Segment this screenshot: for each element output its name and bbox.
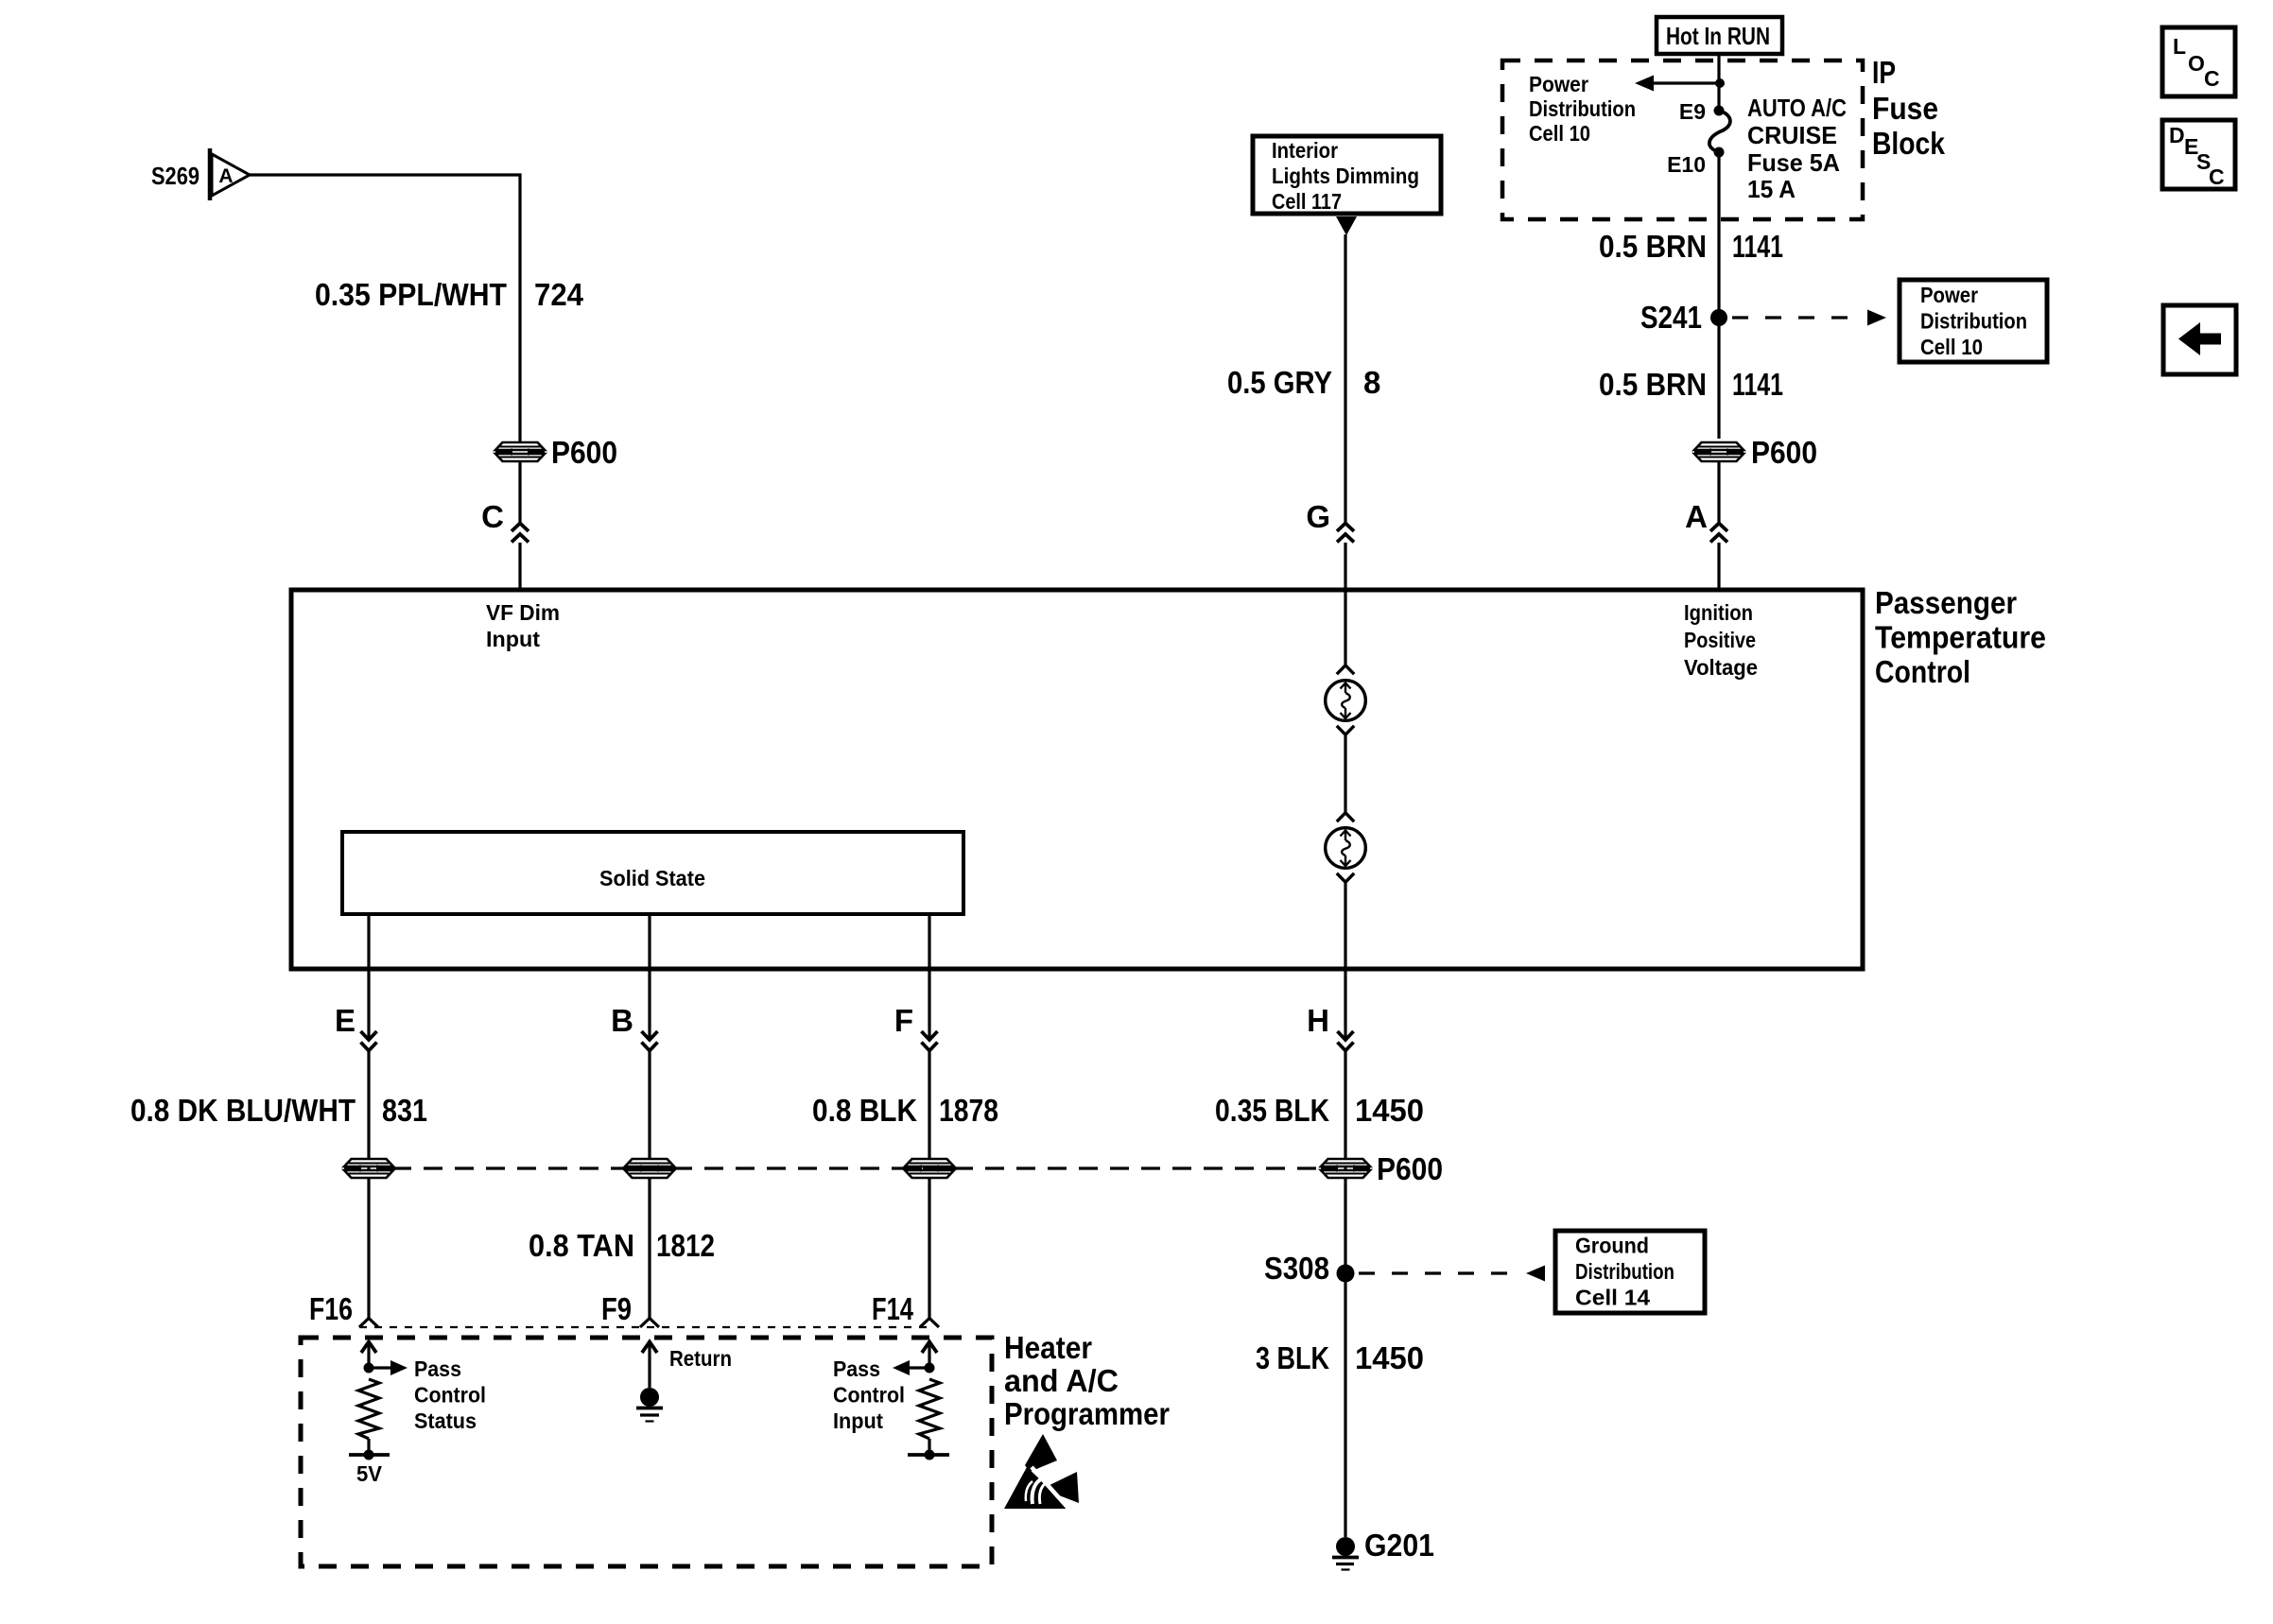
pin F connector: wire, arrowhead, chevron (922, 969, 938, 1051)
wire Hot In RUN down into fuse block (1717, 54, 1720, 109)
wire solid state to pin F (928, 914, 930, 969)
svg-text:and A/C: and A/C (1004, 1363, 1119, 1398)
svg-text:Interior: Interior (1272, 138, 1338, 163)
svg-text:1141: 1141 (1732, 367, 1783, 402)
wire label 0.8 TAN 1812 (529, 1228, 715, 1263)
svg-text:Cell 14: Cell 14 (1575, 1286, 1650, 1310)
arrowhead right to Power Distribution box (1867, 310, 1886, 326)
svg-text:F16: F16 (309, 1291, 353, 1326)
connector P600 (B wire) (625, 1159, 674, 1178)
F16 internal junction dot (364, 1363, 374, 1373)
rail junction dot (925, 1450, 935, 1460)
svg-text:O: O (2188, 51, 2205, 76)
wire label 0.35 PPL/WHT 724 (315, 277, 584, 312)
component name Heater and A/C Programmer (1004, 1330, 1170, 1431)
pin B connector: wire, arrowhead, chevron (642, 969, 658, 1051)
svg-text:IP: IP (1872, 55, 1896, 90)
svg-text:F: F (894, 1003, 913, 1038)
svg-text:724: 724 (534, 277, 584, 312)
terminal E9 dot (1714, 106, 1725, 116)
connector P600 (A wire) (1694, 442, 1744, 461)
wire P600 to pin A (1717, 462, 1720, 523)
svg-text:Positive: Positive (1684, 628, 1756, 652)
svg-text:Pass: Pass (414, 1356, 461, 1381)
rail bar (908, 1453, 949, 1457)
svg-text:S241: S241 (1640, 300, 1702, 335)
wire B to F9 (648, 1051, 651, 1318)
pin G in-line connector chevrons (1337, 524, 1354, 543)
branch wire to Power Distribution (1653, 81, 1720, 84)
connector P600 (E wire) (344, 1159, 393, 1178)
svg-text:Programmer: Programmer (1004, 1396, 1170, 1431)
arrowhead left Pass Control Input (893, 1360, 910, 1375)
svg-text:H: H (1307, 1003, 1329, 1038)
svg-text:Control: Control (414, 1383, 486, 1408)
svg-text:F9: F9 (601, 1291, 632, 1326)
svg-text:3 BLK: 3 BLK (1256, 1340, 1329, 1375)
wire from S269 to C column (250, 175, 520, 441)
connector triangle S269 pin A (210, 148, 250, 200)
svg-text:5V: 5V (356, 1461, 383, 1486)
svg-text:Ignition: Ignition (1684, 600, 1753, 625)
wire label 0.8 BLK 1878 (812, 1093, 998, 1128)
Heater and A/C Programmer dashed box (301, 1338, 992, 1566)
box Power Distribution Cell 10 (reference) (1900, 280, 2047, 362)
svg-text:Solid State: Solid State (599, 866, 705, 890)
dashed harness line through P600 row (392, 1166, 1322, 1169)
wire label 0.5 GRY 8 (1227, 365, 1380, 400)
arrowhead left to Power Distribution (1635, 76, 1654, 92)
resistor R (pass control input) (919, 1379, 940, 1439)
svg-text:Temperature: Temperature (1875, 620, 2046, 655)
wire fuse to A column (1717, 152, 1720, 439)
wire between lamps (1344, 735, 1346, 813)
dashed reference wire from S308 (1359, 1271, 1524, 1274)
terminal F9 chevron (640, 1319, 659, 1328)
svg-text:Distribution: Distribution (1529, 96, 1636, 121)
F14 internal junction dot (925, 1363, 935, 1373)
svg-text:Control: Control (1875, 654, 1970, 689)
wire resistor to 5V rail (367, 1439, 370, 1455)
pin function text VF Dim Input (486, 600, 560, 651)
svg-text:C: C (2204, 66, 2220, 91)
svg-text:B: B (611, 1003, 633, 1038)
pin A in-line connector chevrons (1710, 524, 1727, 543)
svg-text:Power: Power (1529, 72, 1588, 96)
svg-text:0.5 GRY: 0.5 GRY (1227, 365, 1332, 400)
terminal F16 chevron (359, 1319, 378, 1328)
pin C in-line connector chevrons (512, 524, 529, 543)
svg-text:Distribution: Distribution (1920, 309, 2027, 334)
box Ground Distribution Cell 14 (1555, 1231, 1705, 1313)
svg-text:0.5 BRN: 0.5 BRN (1599, 229, 1707, 264)
svg-text:E: E (335, 1003, 356, 1038)
svg-text:1450: 1450 (1355, 1340, 1424, 1375)
svg-text:1812: 1812 (656, 1228, 715, 1263)
wire label 0.8 DK BLU/WHT 831 (130, 1093, 427, 1128)
svg-text:Pass: Pass (833, 1356, 880, 1381)
wire P600 to pin C (518, 462, 521, 523)
svg-text:0.8 BLK: 0.8 BLK (812, 1093, 917, 1128)
svg-text:1450: 1450 (1355, 1093, 1424, 1128)
svg-text:Input: Input (833, 1408, 883, 1433)
box Interior Lights Dimming Cell 117 (1253, 136, 1441, 214)
LOC legend box (2162, 27, 2235, 96)
text Power Distribution Cell 10 (fuse block) (1529, 72, 1636, 146)
svg-text:AUTO A/C: AUTO A/C (1747, 94, 1847, 122)
wire label 3 BLK 1450 (1256, 1340, 1424, 1375)
svg-text:1878: 1878 (939, 1093, 998, 1128)
text Pass Control Input (833, 1356, 905, 1433)
wire G line inside box upper (1344, 590, 1346, 665)
svg-text:Cell 10: Cell 10 (1920, 335, 1983, 359)
svg-text:P600: P600 (1751, 435, 1817, 470)
arrowhead right Pass Control Status (390, 1360, 408, 1375)
text Pass Control Status (414, 1356, 486, 1433)
splice S241 dot (1710, 309, 1727, 326)
svg-text:Lights Dimming: Lights Dimming (1272, 164, 1419, 188)
5V rail bar (349, 1453, 390, 1457)
F9 internal arrow up (Return) (642, 1342, 657, 1389)
svg-text:0.8 DK BLU/WHT: 0.8 DK BLU/WHT (130, 1093, 356, 1128)
wire label 0.5 BRN 1141 upper (1599, 229, 1783, 264)
svg-text:G: G (1306, 499, 1330, 534)
wire F to F14 (928, 1051, 930, 1318)
svg-text:CRUISE: CRUISE (1747, 121, 1837, 149)
dashed reference wire from S241 (1732, 316, 1857, 319)
box Hot In RUN (1657, 17, 1782, 54)
branch wire to Pass Control Status (369, 1366, 391, 1369)
module name Passenger Temperature Control (1875, 585, 2046, 689)
arrow from Interior Lights box down (1336, 216, 1357, 235)
thin dashed connector face line (359, 1326, 931, 1328)
svg-text:S269: S269 (151, 162, 200, 190)
wire solid state to pin E (367, 914, 370, 969)
svg-text:Status: Status (414, 1408, 477, 1433)
wire H down to G201 (1344, 1051, 1346, 1537)
svg-text:L: L (2173, 34, 2186, 59)
wire lamp2 to box bottom (1344, 883, 1346, 969)
connector P600 (H wire) (1321, 1159, 1370, 1178)
svg-text:Voltage: Voltage (1684, 655, 1758, 680)
fuse element AUTO A/C CRUISE 15A (1709, 111, 1730, 152)
svg-text:8: 8 (1363, 365, 1380, 400)
lamp 2 (VF segment) (1326, 813, 1366, 882)
svg-text:Hot In RUN: Hot In RUN (1666, 22, 1770, 50)
5V rail junction dot (364, 1450, 374, 1460)
svg-text:0.35 BLK: 0.35 BLK (1215, 1093, 1329, 1128)
svg-text:Fuse: Fuse (1872, 91, 1938, 126)
junction dot on feed wire (1715, 78, 1725, 88)
svg-text:Block: Block (1872, 126, 1946, 161)
Solid State box (342, 832, 963, 914)
pin function text Ignition Positive Voltage (1684, 600, 1758, 680)
svg-text:Return: Return (669, 1346, 732, 1371)
ESD sensitivity symbol (1004, 1434, 1079, 1512)
svg-text:0.5 BRN: 0.5 BRN (1599, 367, 1707, 402)
svg-text:Heater: Heater (1004, 1330, 1092, 1365)
svg-text:C: C (2209, 164, 2225, 189)
wire solid state to pin B (648, 914, 651, 969)
svg-text:E9: E9 (1679, 99, 1706, 124)
svg-text:Ground: Ground (1575, 1234, 1649, 1258)
svg-text:A: A (1685, 499, 1708, 534)
pin H connector: wire, arrowhead, chevron (1338, 969, 1354, 1051)
svg-text:Cell 117: Cell 117 (1272, 189, 1342, 214)
wire pin G into box (1344, 543, 1346, 592)
wire pin C into box (518, 543, 521, 592)
IP Fuse Block dashed box (1502, 60, 1863, 219)
svg-text:S308: S308 (1264, 1251, 1329, 1286)
wire label 0.5 BRN 1141 lower (1599, 367, 1783, 402)
svg-text:A: A (218, 165, 233, 187)
terminal E10 dot (1714, 147, 1725, 158)
svg-text:Fuse 5A: Fuse 5A (1747, 148, 1840, 177)
svg-text:F14: F14 (872, 1291, 913, 1326)
arrowhead toward Ground Distribution box (1526, 1266, 1545, 1282)
svg-text:C: C (481, 499, 504, 534)
svg-text:D: D (2169, 123, 2185, 147)
svg-text:Passenger: Passenger (1875, 585, 2017, 620)
connector P600 (C wire) (495, 442, 545, 461)
resistor R (pass control status) (358, 1379, 379, 1439)
svg-text:Input: Input (486, 627, 540, 651)
Passenger Temperature Control module box (291, 590, 1863, 969)
DESC legend box (2162, 120, 2235, 189)
svg-text:0.8 TAN: 0.8 TAN (529, 1228, 634, 1263)
svg-text:Control: Control (833, 1383, 905, 1408)
wire E to F16 (367, 1051, 370, 1318)
fuse name text (1747, 94, 1847, 203)
wire pin A into box (1717, 543, 1720, 592)
svg-text:VF Dim: VF Dim (486, 600, 560, 625)
svg-text:P600: P600 (1377, 1151, 1443, 1186)
svg-text:1141: 1141 (1732, 229, 1783, 264)
splice S308 dot (1337, 1265, 1355, 1283)
IP Fuse Block label (1872, 55, 1946, 161)
wire label 0.35 BLK 1450 (1215, 1093, 1424, 1128)
F16 internal arrow up (361, 1342, 376, 1369)
svg-text:Power: Power (1920, 283, 1978, 307)
terminal F14 chevron (920, 1319, 939, 1328)
ground G201 (1332, 1537, 1359, 1570)
svg-text:Distribution: Distribution (1575, 1259, 1674, 1284)
svg-text:15 A: 15 A (1747, 175, 1796, 203)
pin E connector: wire, arrowhead, chevron (361, 969, 377, 1051)
back-arrow legend box (2163, 305, 2236, 374)
F14 internal arrow up (922, 1342, 937, 1369)
svg-text:P600: P600 (551, 435, 617, 470)
svg-text:G201: G201 (1364, 1528, 1434, 1563)
lamp 1 (VF segment) (1326, 665, 1366, 734)
connector P600 (F wire) (905, 1159, 954, 1178)
wire G column upper (1344, 234, 1346, 523)
svg-text:E10: E10 (1667, 152, 1706, 177)
branch wire to Pass Control Input (910, 1366, 929, 1369)
ground symbol (Return) (636, 1388, 663, 1422)
svg-text:Cell 10: Cell 10 (1529, 121, 1590, 146)
svg-text:0.35 PPL/WHT: 0.35 PPL/WHT (315, 277, 507, 312)
wire resistor to rail (928, 1439, 930, 1455)
svg-text:831: 831 (382, 1093, 427, 1128)
